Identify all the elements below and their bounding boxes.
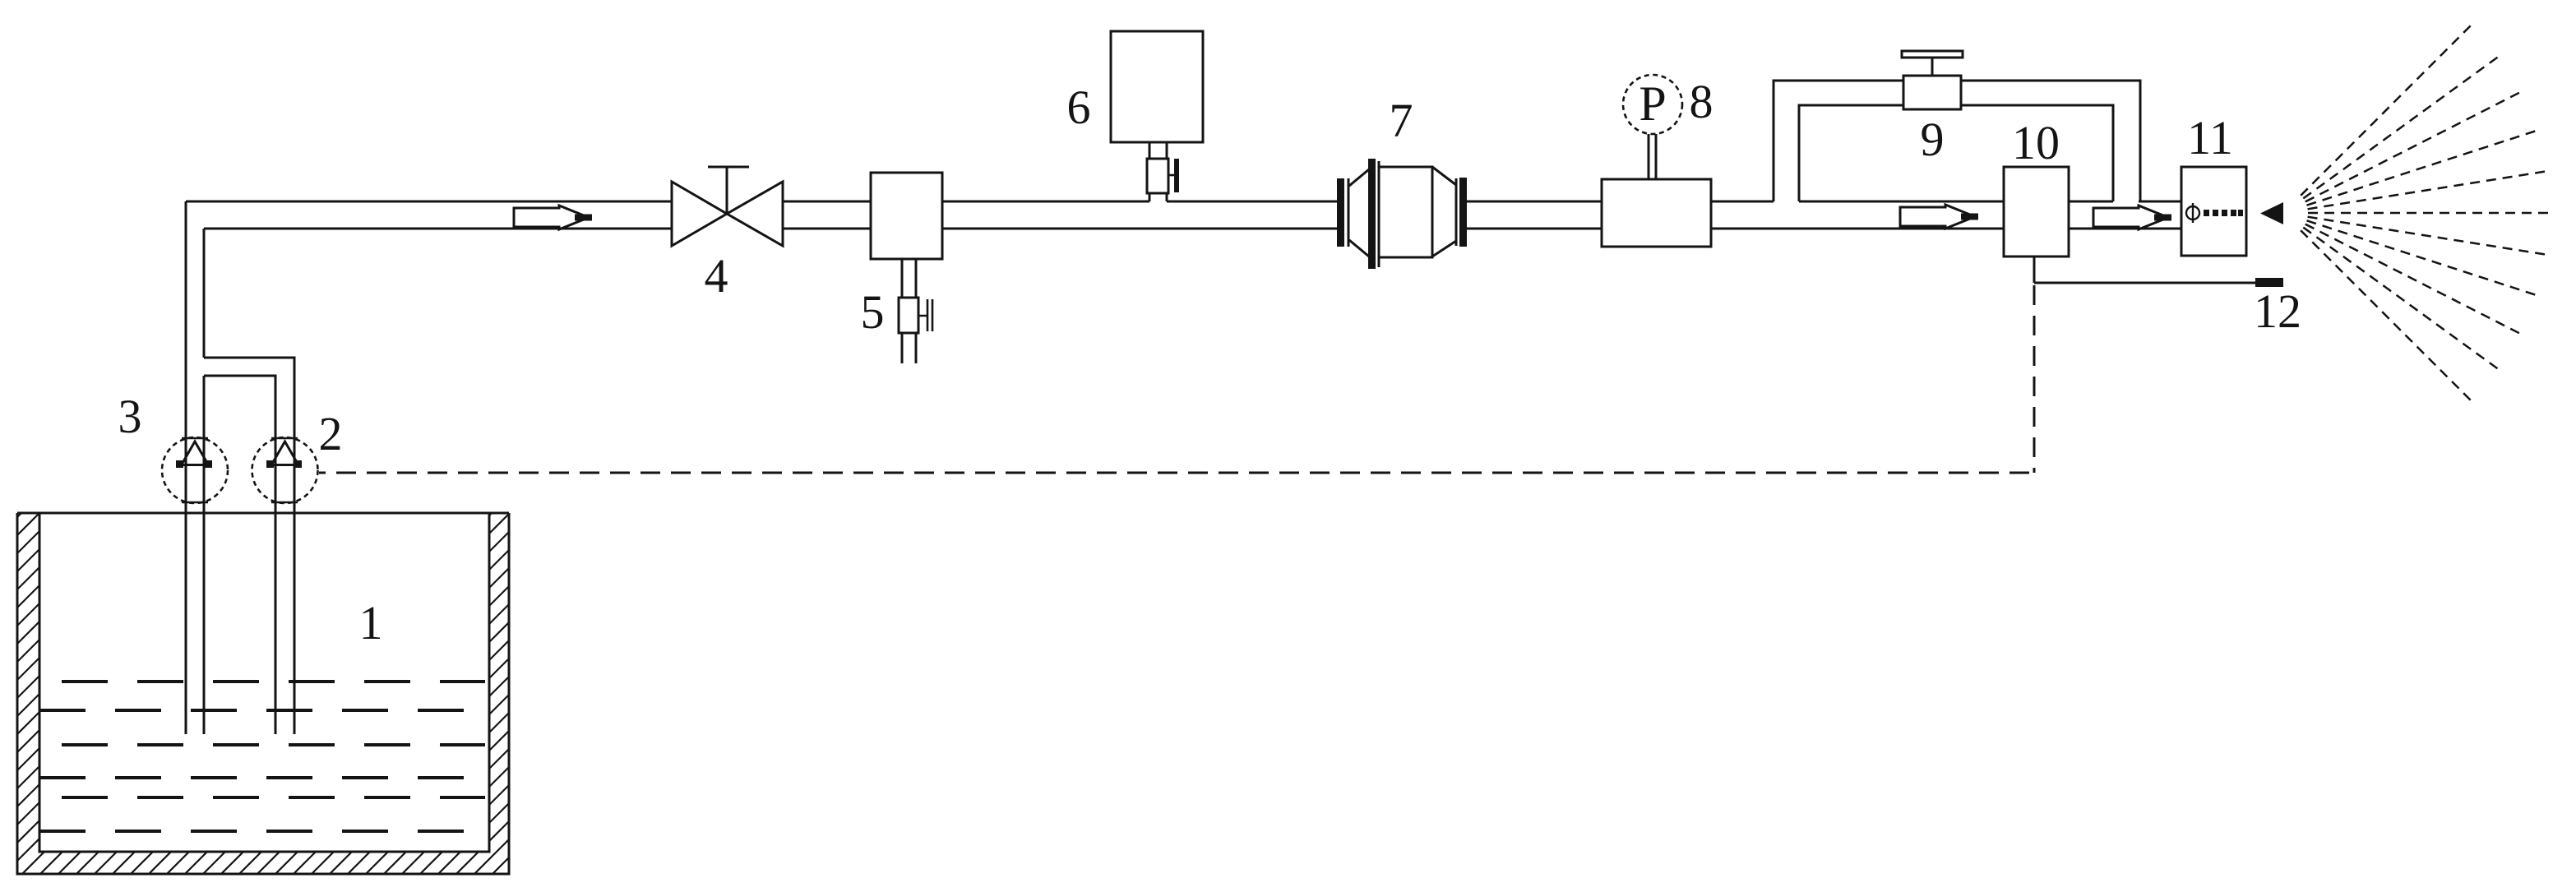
bypass valve 9 stem (1931, 58, 1934, 76)
svg-text:9: 9 (1921, 113, 1945, 166)
svg-text:P: P (1639, 76, 1666, 131)
damper 7 body (1379, 167, 1432, 257)
drain valve of 5 (899, 298, 918, 333)
damper 7 right cone (1432, 167, 1456, 257)
nozzle internals (2186, 203, 2199, 223)
svg-text:7: 7 (1390, 94, 1413, 147)
svg-text:12: 12 (2254, 284, 2301, 338)
filter box 5 (871, 173, 942, 259)
regulator box 10 (2004, 167, 2069, 257)
control feedback dashed line from 10 to pump 2 (2033, 285, 2036, 473)
main pipe bottom line (204, 228, 2181, 230)
damper 7 right flange (1455, 178, 1458, 246)
spray arrowhead at nozzle tip (2260, 202, 2283, 224)
stub pipe of 6 (1149, 142, 1167, 201)
pump 2 (252, 437, 318, 503)
nozzle box 11 (2181, 167, 2246, 256)
pressure sensor body 8 (1602, 179, 1711, 247)
suction pipe of pump 2 with tee into riser (204, 358, 294, 734)
damper 7 left flange (1337, 178, 1344, 247)
valve handle of 6 (1168, 174, 1175, 177)
tank T1 outer wall (17, 513, 509, 874)
main pipe top line (186, 201, 2181, 203)
bypass outer loop (1774, 81, 2140, 201)
svg-text:6: 6 (1067, 81, 1091, 134)
bypass valve 9 handle (1902, 51, 1963, 58)
pressure gauge 8 dial (1623, 75, 1682, 134)
tank T1 inner wall (39, 513, 489, 852)
damper 7 left cone (1349, 169, 1369, 257)
svg-text:11: 11 (2187, 111, 2233, 164)
pump 3 (162, 437, 228, 503)
svg-text:1: 1 (359, 596, 383, 649)
drain valve handle of 5 (918, 299, 932, 331)
bypass valve 9 (1903, 76, 1961, 109)
svg-text:4: 4 (705, 249, 728, 303)
tank T1 top rim (17, 512, 509, 515)
sensor probe line 12 (2034, 257, 2255, 283)
svg-text:10: 10 (2012, 116, 2060, 169)
svg-text:3: 3 (118, 390, 142, 443)
bypass inner loop (1799, 105, 2113, 201)
valve of 6 (1147, 159, 1168, 193)
flow arrow A2 (1900, 205, 1978, 229)
svg-text:8: 8 (1690, 75, 1713, 128)
suction pipe of pump 3 (riser) (186, 201, 204, 734)
tank T1 liquid level dashes (39, 682, 485, 831)
flow arrow A3 (2093, 206, 2171, 229)
tank T1 wall hatching (0, 386, 980, 880)
pressure gauge 8 stem (1649, 134, 1656, 179)
svg-text:5: 5 (861, 285, 885, 339)
damper 7 inner flange (1368, 159, 1376, 269)
valve 4 (672, 167, 783, 246)
svg-text:2: 2 (319, 407, 343, 460)
reservoir 6 (1111, 31, 1203, 142)
flow arrow A1 (514, 206, 592, 229)
drain pipe of 5 (902, 259, 916, 363)
spray jets (2301, 25, 2548, 400)
